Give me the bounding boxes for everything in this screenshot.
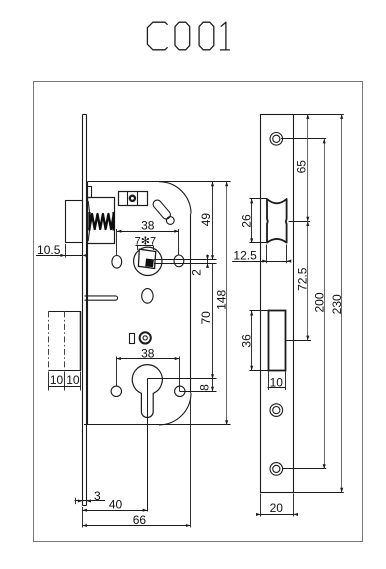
svg-text:8: 8 [198,384,212,391]
svg-text:10.5: 10.5 [37,243,61,257]
svg-text:65: 65 [295,160,309,174]
svg-text:49: 49 [199,213,213,227]
svg-text:148: 148 [214,289,228,309]
svg-text:36: 36 [239,334,253,348]
svg-text:200: 200 [312,292,326,312]
svg-text:2: 2 [190,269,204,276]
svg-text:38: 38 [141,346,155,360]
svg-text:66: 66 [133,513,147,527]
svg-text:20: 20 [270,501,284,515]
svg-text:230: 230 [330,294,344,314]
svg-text:70: 70 [199,311,213,325]
svg-text:26: 26 [239,214,253,228]
svg-text:12.5: 12.5 [233,248,257,262]
svg-text:10: 10 [66,373,80,387]
svg-text:40: 40 [109,497,123,511]
svg-text:38: 38 [141,218,155,232]
svg-text:10: 10 [50,373,64,387]
svg-text:3: 3 [94,489,101,503]
svg-text:72.5: 72.5 [295,267,309,291]
svg-text:10: 10 [270,376,284,390]
